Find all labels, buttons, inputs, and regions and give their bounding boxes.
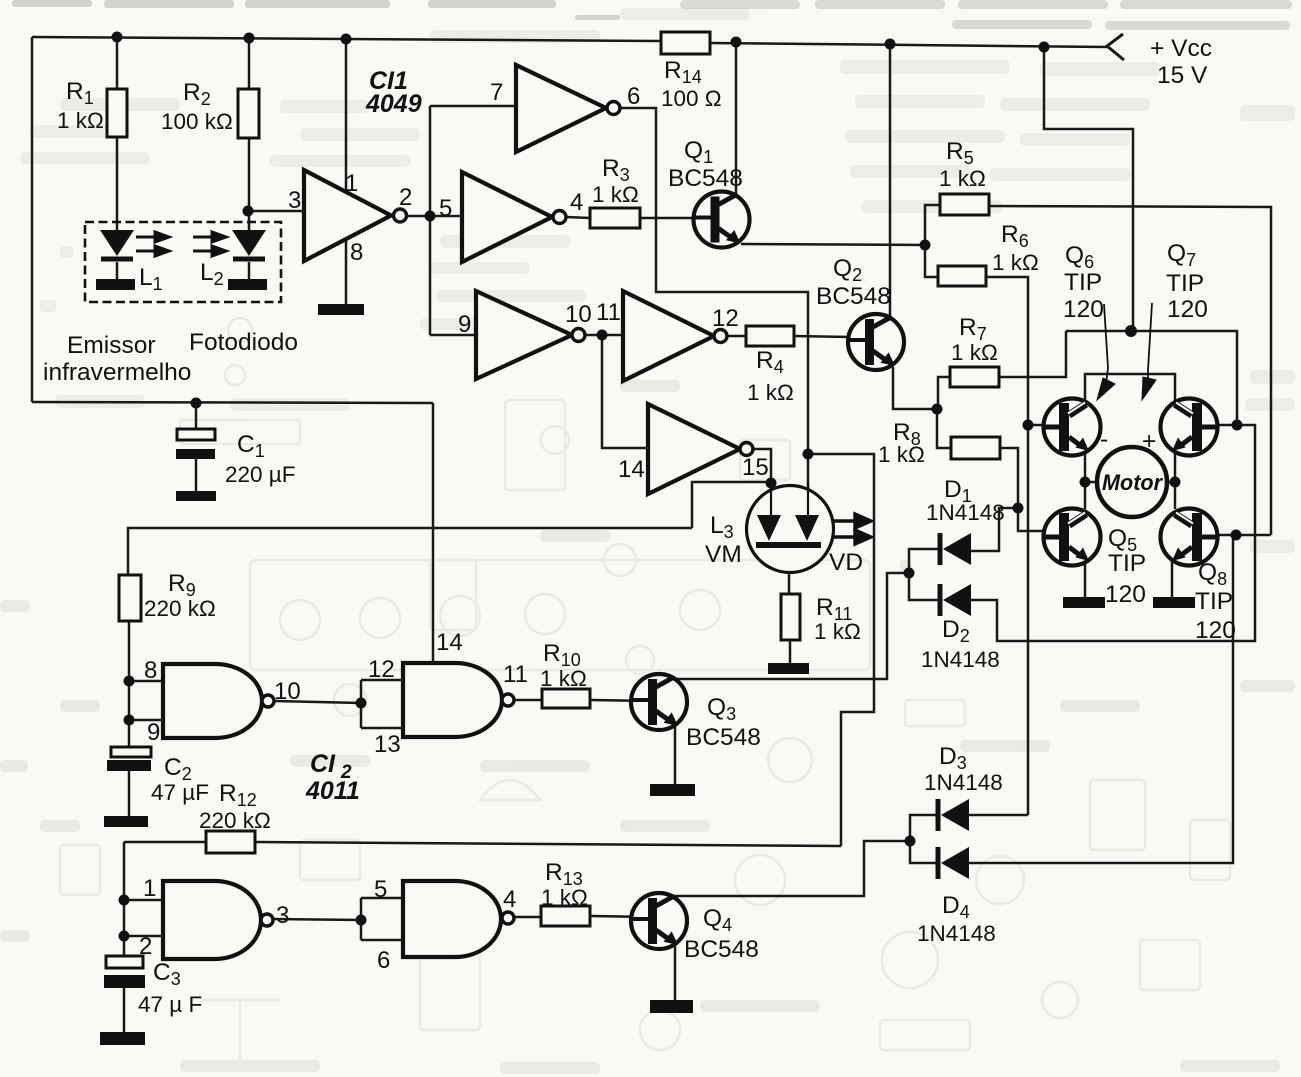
svg-text:1N4148: 1N4148 [926,500,1005,525]
bicolor LED L3 [747,483,834,573]
wire: C3 bottom lead [123,988,126,1032]
resistor R10 [542,689,590,708]
svg-text:2: 2 [399,184,412,211]
node: Q1 collector junction [731,37,742,48]
wire: R8 right to Q5 base node [1000,448,1018,508]
transistor Q1 [694,192,750,248]
svg-text:4049: 4049 [365,90,422,118]
wire: C1 top lead [195,403,198,430]
wire: Q8 emitter to ground [1171,560,1174,598]
Q7 pointer arrow [1142,303,1156,400]
node: output2 junction [425,211,436,222]
transistor Q7 [1161,399,1218,456]
svg-text:TIP: TIP [1166,270,1204,297]
svg-text:VD: VD [829,549,863,576]
capacitor C2 [107,747,151,771]
wire: pin 9 input [129,719,163,722]
wire: R1 to L1 [116,137,119,231]
L2 incoming arrows [193,232,226,256]
wire: Q1 emitter to R5/R6 node [741,244,925,245]
svg-text:BC548: BC548 [668,165,743,192]
svg-text:10: 10 [274,678,301,705]
wire: R8 top lead [937,409,951,448]
ground C3 [100,1032,145,1045]
svg-text:15: 15 [742,454,769,481]
LED L1 [96,230,135,290]
wire: output 4 to R13 [514,916,541,919]
svg-text:1 kΩ: 1 kΩ [992,250,1039,275]
svg-text:100 Ω: 100 Ω [661,86,722,111]
svg-text:6: 6 [627,83,640,110]
capacitor C1 [176,429,215,459]
Q6 pointer arrow [1097,304,1115,400]
resistor R7 [950,367,999,387]
node: motor right junction [1170,477,1181,488]
wire: left vertical rail [31,37,34,402]
resistor R6 [938,266,986,286]
wire: D3/D4 node to Q4 collector [672,841,910,896]
inverter CI1e pins 11-12 [623,291,727,381]
svg-text:220 kΩ: 220 kΩ [144,596,216,621]
wire: R2 to L2 [248,138,251,231]
svg-text:8: 8 [350,239,363,266]
svg-text:4: 4 [570,189,583,216]
svg-text:BC548: BC548 [686,724,761,751]
svg-text:+: + [1142,428,1156,455]
svg-text:1: 1 [143,875,156,902]
ground CI1a pin8 [318,304,364,315]
diode D3 [938,799,969,831]
wire: top supply rail right of R14 to Vcc [710,43,1109,47]
wire: D3 anode lead [969,814,1028,817]
node: L3 VM junction [766,478,777,489]
svg-text:1 kΩ: 1 kΩ [951,340,998,365]
wire: R13 to Q4 base [590,916,648,917]
node: pin 8 junction [124,676,135,687]
wire: output 12 to R4 [726,335,746,338]
node: Vcc feed junction [1039,42,1050,53]
svg-text:11: 11 [503,661,528,688]
wire: R5/R6 left bracket [925,205,940,277]
diode D2 [940,584,971,616]
svg-text:1 kΩ: 1 kΩ [747,380,794,405]
wire: L3 cathode to R11 [788,548,791,594]
wire: L1 lead [116,262,119,280]
ground Q3 [650,784,695,796]
svg-text:1 kΩ: 1 kΩ [541,885,588,910]
svg-text:120: 120 [1167,296,1208,323]
L3 emission arrows [834,514,871,544]
svg-text:3: 3 [276,902,289,929]
wire: bridge right midpoint [1174,451,1177,509]
wire: D1 anode to node [971,508,1018,551]
svg-text:8: 8 [144,657,157,684]
wire: Q7 base to D2 column [971,425,1255,641]
svg-text:TIP: TIP [1195,588,1233,615]
wire: lower horizontal of left loop [32,402,433,403]
wire: R10 to Q3 base [590,700,648,701]
wire: pin 1 to Vdd [345,39,348,193]
svg-text:10: 10 [565,301,592,328]
node: R5/R6 junction [920,240,931,251]
wire: R12 right long feedback [255,842,841,846]
resistor R14 [661,32,710,54]
wire: pins 5/6 tie [360,898,363,940]
wire: D3 cathode bracket D4 [910,815,936,863]
node: D1/D2 junction [904,568,915,579]
wire: output 6 [620,108,808,516]
wire: output 15 to L3 [753,449,771,516]
svg-text:220 µF: 220 µF [225,462,296,487]
wire: pin 8 to ground [345,239,348,304]
svg-text:13: 13 [374,731,401,758]
wire: pin 11 to pin 14 [602,335,648,448]
svg-text:1 kΩ: 1 kΩ [814,619,861,644]
resistor R13 [541,906,590,926]
wire: Q3 emitter to ground [674,726,677,784]
resistor R12 [206,831,255,853]
wire: R2 top lead [248,38,251,89]
ground R11 [768,663,809,674]
wire: CI2 lower input column [123,842,126,956]
resistor R2 [238,89,259,138]
resistor R1 [107,89,127,137]
diode D1 [940,533,971,565]
svg-text:7: 7 [490,79,503,106]
wire: pin 5 input [361,897,403,900]
wire: C2 bottom lead [128,771,131,816]
resistor R8 [951,437,1000,459]
svg-text:120: 120 [1063,296,1104,323]
wire: R7 left lead [938,377,950,410]
inverter CI1f pins 14-15 [648,404,753,494]
wire: R1 top lead [116,37,119,89]
wire: L2 lead [248,262,251,280]
wire: R4 to Q2 base [794,336,850,337]
wire: Q4 emitter to ground [674,945,677,1000]
NAND CI2d pins 5,6-4 [403,881,514,957]
wire: pin 13 input [361,727,403,730]
wire: bridge left midpoint [1084,451,1087,509]
node: C1 junction [191,398,202,409]
ground Q5 [1063,597,1105,608]
svg-text:3: 3 [288,187,301,214]
wire: R6 right to Q6 base / D3 column [986,277,1028,815]
node: Q2 emitter junction [932,404,943,415]
capacitor C3 [104,956,145,988]
svg-text:12: 12 [368,656,395,683]
svg-text:5: 5 [439,195,452,222]
wire: D4 anode to Q8 base column [969,537,1233,863]
wire: Q1 collector [735,41,738,196]
wire: pin 7 input [430,105,516,108]
node: pins 5/6 junction [356,915,367,926]
wire: R9 to CI2 inputs to C2 [128,621,131,748]
svg-text:1 kΩ: 1 kΩ [540,666,587,691]
svg-text:1 kΩ: 1 kΩ [878,442,925,467]
transistor Q6 [1044,399,1101,456]
transistor Q4 [631,893,687,949]
svg-text:14: 14 [618,456,645,483]
svg-text:15 V: 15 V [1157,62,1208,89]
node: Q7 base junction [1232,420,1243,431]
wire: output 4 to R3 [566,217,590,218]
wire: Q2 collector [889,44,892,316]
wire: Q5 emitter to ground [1084,560,1087,598]
node: pins 12/13 junction [356,698,367,709]
node: motor left junction [1080,477,1091,488]
svg-text:47 µF: 47 µF [151,780,209,805]
wire: CI2 pin 14 supply [432,403,435,661]
svg-text:TIP: TIP [1064,269,1102,296]
transistor Q3 [631,674,687,730]
svg-text:4011: 4011 [305,777,360,805]
wire: Q2 emitter down [893,367,937,409]
svg-text:1N4148: 1N4148 [924,770,1003,795]
wire: R3 to Q1 base [640,217,696,220]
node: Vcc rail junction [1125,325,1137,337]
svg-text:1 kΩ: 1 kΩ [592,182,639,207]
NAND CI2c pins 1,2-3 [163,881,273,959]
wire: R11 to ground [789,640,792,664]
svg-text:5: 5 [374,876,387,903]
svg-text:220 kΩ: 220 kΩ [199,808,271,833]
node: pin 11 junction [597,330,608,341]
wire: branch rail pins 7/9 [429,106,432,335]
svg-text:Motor: Motor [1102,470,1163,495]
wire: VD anode branch [808,454,874,846]
resistor R11 [781,594,800,640]
node: pin 1 junction [119,895,130,906]
wire: motor left lead [1085,481,1098,484]
inverter CI1d pins 9-10 [476,291,585,379]
wire: output 2 to pin 5 [405,215,462,218]
svg-text:2: 2 [139,933,152,960]
node: pin 9 junction [124,715,135,726]
svg-text:-: - [1100,426,1108,453]
transistor Q5 [1044,509,1101,566]
wire: Vcc feed to rail [1044,47,1133,331]
L1 emission arrows [136,232,169,256]
wire: pin 3 input [248,210,304,213]
wire: bridge collector rail [1085,374,1175,403]
svg-text:9: 9 [147,719,160,746]
svg-text:100 kΩ: 100 kΩ [161,109,233,134]
node: D3/D4 junction [905,836,916,847]
wire: Q8 base [1217,534,1271,537]
wire: R7 right lead up [999,331,1066,377]
svg-text:4: 4 [503,886,516,913]
svg-text:1N4148: 1N4148 [917,921,996,946]
wire: pin 6 input [361,939,403,942]
wire: motor right lead [1167,481,1175,484]
svg-text:14: 14 [436,629,463,656]
wire: pin 8 input [129,680,163,683]
wire: output 10 to pin 11 [584,334,623,337]
wire: output 11 to R10 [513,699,542,702]
NAND CI2a pins 8,9-10 [163,664,274,738]
wire: C1 bottom lead [195,459,198,491]
svg-text:BC548: BC548 [816,283,891,310]
node: R2 supply junction [244,33,255,44]
svg-text:infravermelho: infravermelho [43,359,191,386]
wire: pin 1 input [124,899,163,902]
resistor R5 [940,194,989,215]
ground Q4 [650,1000,693,1013]
node: Q8 base junction [1231,530,1242,541]
node: Q2 collector junction [885,39,896,50]
wire: feedback line to R9 [128,528,692,575]
node: pin1 supply junction [341,34,352,45]
inverter CI1b pins 7-6 [516,65,620,152]
svg-text:Emissor: Emissor [67,332,155,359]
wire: D1/D2 node to Q3 collector [672,573,909,679]
dashed enclosure [85,222,281,302]
svg-text:+ Vcc: + Vcc [1150,35,1212,62]
wire: R12 left lead [124,841,205,844]
wire: pins 12/13 tie [360,680,363,728]
svg-text:9: 9 [458,311,471,338]
wire: pin 12 input [361,679,403,682]
wire: pin 2 input [124,935,163,938]
node: pin3 junction [243,206,254,217]
photodiode L2 [228,230,267,290]
svg-text:12: 12 [712,305,739,332]
svg-text:6: 6 [377,947,390,974]
ground Q8 [1153,597,1195,608]
wire: node to Q5 base [1018,508,1044,531]
node: pin 2 junction [119,931,130,942]
diode D4 [938,847,969,879]
wire: output 3 to pins 5/6 [271,919,361,920]
resistor R9 [119,575,141,621]
wire: D1 cathode bracket D2 [909,549,939,600]
svg-text:VM: VM [705,541,742,568]
svg-text:120: 120 [1195,617,1236,644]
resistor R3 [590,208,640,228]
svg-text:TIP: TIP [1108,550,1146,577]
wire: R5 to Q8 base column [989,206,1271,535]
wire: L3 node to feedback [692,482,771,528]
motor M [1097,447,1167,517]
svg-text:1 kΩ: 1 kΩ [57,108,104,133]
node: Q5 base junction [1013,503,1024,514]
svg-text:11: 11 [596,299,621,326]
wire: output 10 wire [274,701,361,703]
svg-text:BC548: BC548 [684,936,759,963]
ground C2 [104,816,148,827]
inverter CI1a pins 3-2 [304,170,407,261]
svg-text:1N4148: 1N4148 [921,647,1000,672]
node: Q6 base junction [1023,420,1034,431]
wire: top supply rail left of R14 [32,37,661,41]
wire: pin 9 input [430,334,476,337]
Vcc connector arrow [1107,34,1124,60]
svg-text:Fotodiodo: Fotodiodo [189,329,298,356]
ground C1 [176,491,216,501]
node: R1 supply junction [112,32,123,43]
inverter CI1c pins 5-4 [462,172,566,262]
wire: base rail [1066,331,1237,425]
svg-text:1: 1 [345,170,358,197]
wire: Q6 base [1028,424,1044,427]
svg-text:47 µ F: 47 µ F [138,992,202,1017]
NAND CI2b pins 12,13-11 [403,663,514,737]
transistor Q8 [1161,509,1218,566]
transistor Q2 [848,314,904,370]
node: VD anode junction [803,449,814,460]
resistor R4 [746,326,794,346]
svg-text:1 kΩ: 1 kΩ [939,166,986,191]
svg-text:120: 120 [1105,581,1146,608]
